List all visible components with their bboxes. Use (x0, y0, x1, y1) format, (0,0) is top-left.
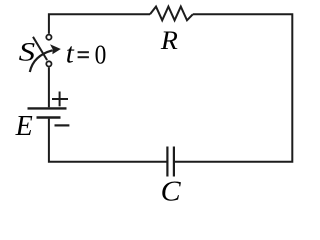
svg-text:S: S (19, 38, 35, 67)
svg-text:C: C (161, 176, 181, 207)
svg-text:t: t (66, 37, 75, 69)
svg-text:0: 0 (95, 40, 107, 70)
svg-text:R: R (160, 26, 178, 55)
svg-text:E: E (15, 111, 33, 142)
